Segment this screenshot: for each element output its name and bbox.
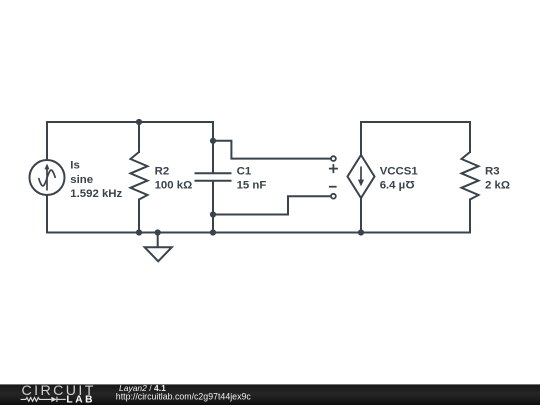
svg-text:http://circuitlab.com/c2g97t44: http://circuitlab.com/c2g97t44jex9c xyxy=(116,391,252,401)
resistor R3 xyxy=(462,152,479,200)
terminal + (output) xyxy=(331,156,336,161)
wire C1 top lead xyxy=(212,141,214,173)
ground xyxy=(145,233,172,262)
junction dot ground node 4 xyxy=(358,229,364,235)
mho symbol (flipped omega) xyxy=(405,178,414,190)
wire VCCS1 top lead xyxy=(360,122,362,155)
wire bottom segment D xyxy=(213,232,361,234)
svg-text:100 kΩ: 100 kΩ xyxy=(155,180,193,192)
svg-text:sine: sine xyxy=(70,174,93,186)
wire R3 top lead xyxy=(469,122,471,152)
CircuitLab logo squiggle (resistor + diode) xyxy=(21,397,66,402)
svg-text:1.592 kHz: 1.592 kHz xyxy=(70,188,122,200)
svg-text:LAB: LAB xyxy=(66,395,95,405)
svg-text:15 nF: 15 nF xyxy=(237,180,267,192)
resistor R2 xyxy=(131,152,148,200)
wire Is bottom lead xyxy=(46,195,48,233)
wire to + terminal xyxy=(213,141,331,159)
svg-text:Is: Is xyxy=(70,160,80,172)
svg-text:6.4 µ: 6.4 µ xyxy=(380,180,406,192)
wire Is top lead xyxy=(46,122,48,160)
wire right loop top xyxy=(361,121,470,123)
wire top segment B xyxy=(139,121,213,123)
svg-text:2 kΩ: 2 kΩ xyxy=(485,180,510,192)
svg-text:C1: C1 xyxy=(237,165,252,177)
svg-text:VCCS1: VCCS1 xyxy=(380,165,419,177)
wire bottom segment C xyxy=(158,232,213,234)
wire bottom segment B xyxy=(139,232,158,234)
current source Is xyxy=(30,160,65,195)
junction dot node A xyxy=(136,119,142,125)
VCCS1 dependent current source xyxy=(348,155,375,198)
wire top segment A xyxy=(47,121,139,123)
wire C1 bottom lead xyxy=(212,182,214,233)
wire bottom segment E xyxy=(361,232,470,234)
plus sign xyxy=(329,164,338,173)
svg-text:R3: R3 xyxy=(485,165,500,177)
svg-text:Ω: Ω xyxy=(405,178,414,190)
wire to - terminal xyxy=(213,196,331,214)
capacitor C1 xyxy=(195,173,232,180)
svg-text:R2: R2 xyxy=(155,165,170,177)
wire bottom segment A xyxy=(47,232,139,234)
junction dot ground node 2 xyxy=(155,229,161,235)
wire drop to node at C1 top xyxy=(212,122,214,141)
wire R2 top lead xyxy=(138,122,140,152)
wire VCCS1 bottom lead xyxy=(360,198,362,233)
junction dot ground node 1 xyxy=(136,229,142,235)
wire R2 bottom lead xyxy=(138,200,140,233)
junction dot node C xyxy=(210,211,216,217)
junction dot ground node 3 xyxy=(210,229,216,235)
terminal - (output) xyxy=(331,194,336,199)
wire R3 bottom lead xyxy=(469,200,471,233)
minus sign xyxy=(329,186,337,188)
junction dot node B xyxy=(210,138,216,144)
